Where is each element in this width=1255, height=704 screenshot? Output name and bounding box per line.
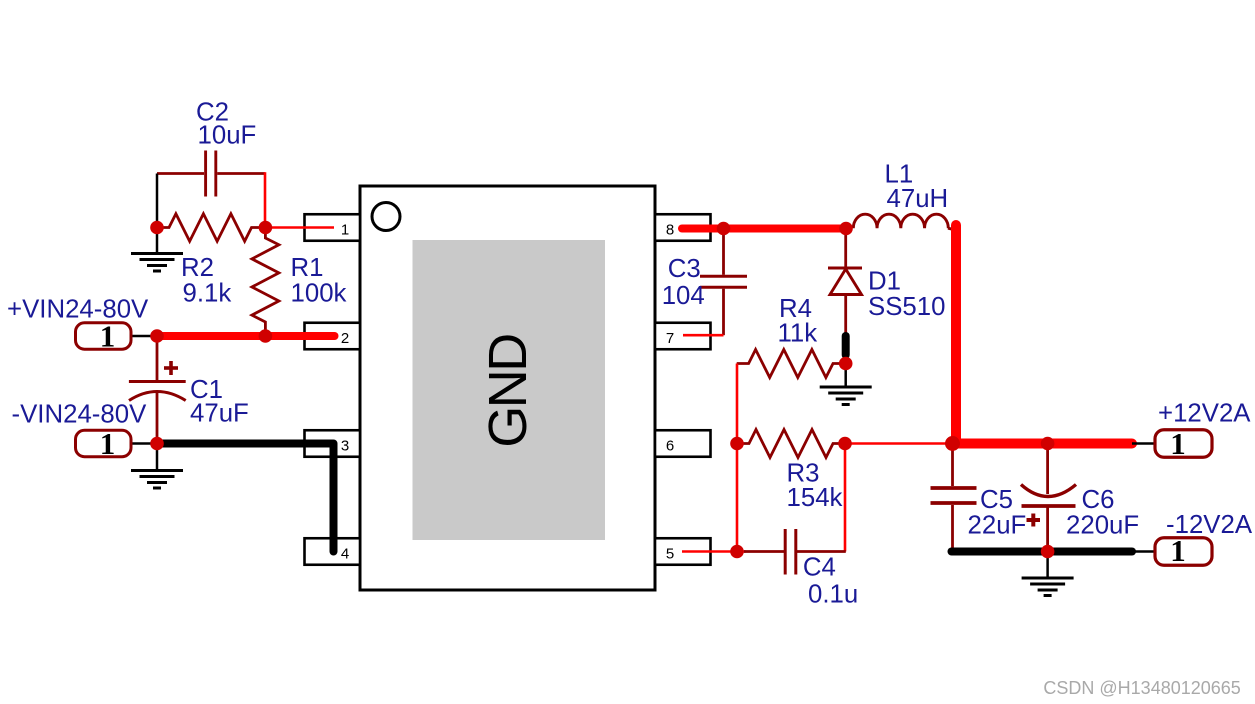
node L1/D1 xyxy=(839,222,853,236)
port -12V2A xyxy=(1155,533,1212,568)
svg-text:0.1u: 0.1u xyxy=(808,581,858,609)
pin 3 box xyxy=(305,430,361,457)
wire thick black output xyxy=(952,548,1133,556)
wire L1 to output rail xyxy=(948,228,954,229)
pin 7 box xyxy=(655,323,711,350)
svg-text:1: 1 xyxy=(100,426,116,461)
port stub +12V xyxy=(1132,442,1156,445)
resistor R1 xyxy=(252,228,279,337)
wire black left vertical to C2 xyxy=(156,174,159,228)
svg-text:-12V2A: -12V2A xyxy=(1166,511,1253,539)
port stub +VIN xyxy=(131,335,152,338)
black wire segment below D1 xyxy=(842,336,850,355)
wire C2 top horizontal right segment xyxy=(217,172,265,175)
capacitor C6 bottom lead xyxy=(1046,507,1049,552)
svg-text:3: 3 xyxy=(341,438,349,455)
svg-text:C3: C3 xyxy=(668,255,701,283)
svg-text:9.1k: 9.1k xyxy=(183,280,232,308)
capacitor C3 bottom lead to pin7 xyxy=(722,289,725,336)
wire pin5 stub xyxy=(682,550,737,553)
diode D1 cathode bar xyxy=(828,267,862,270)
IC inner gray region xyxy=(413,240,606,540)
svg-text:GND: GND xyxy=(478,335,538,448)
pin 1 box xyxy=(305,214,361,241)
capacitor C2 plates xyxy=(206,151,216,197)
capacitor C1 plus sign xyxy=(164,361,178,375)
wire pin7 stub xyxy=(683,334,724,337)
node D1 ground xyxy=(839,357,853,371)
svg-text:C6: C6 xyxy=(1082,486,1115,514)
capacitor C5 bottom lead xyxy=(951,505,954,549)
wire thick red pin2 xyxy=(157,332,335,340)
node pin8/C3 xyxy=(717,222,731,236)
wire red vertical R4 to pin5 row xyxy=(736,364,739,552)
capacitor C3 top lead xyxy=(722,229,725,275)
capacitor C4 plates xyxy=(785,529,796,575)
wire thick red pin8 xyxy=(682,225,846,233)
svg-text:2: 2 xyxy=(341,330,349,347)
node +VIN xyxy=(150,329,164,343)
node R3 left xyxy=(730,437,744,451)
capacitor C1 top lead xyxy=(156,336,159,380)
wire red right vertical from C2 to R1 node xyxy=(264,172,267,227)
wire C4 to R3 vertical xyxy=(797,550,846,553)
svg-text:100k: 100k xyxy=(291,280,347,308)
inductor L1 xyxy=(853,214,948,228)
pin 4 box xyxy=(305,538,361,565)
svg-text:8: 8 xyxy=(666,222,674,239)
capacitor C6 plus sign xyxy=(1027,514,1041,527)
svg-text:154k: 154k xyxy=(787,484,843,512)
svg-text:6: 6 xyxy=(666,438,674,455)
pin 8 box xyxy=(655,214,711,241)
wire pin5 node to C4 xyxy=(737,550,746,553)
wire thick red output vertical xyxy=(951,225,961,444)
svg-text:1: 1 xyxy=(1170,426,1186,461)
node R1 bottom xyxy=(259,329,273,343)
diode D1 triangle xyxy=(830,269,862,295)
svg-text:10uF: 10uF xyxy=(198,122,257,150)
capacitor C6 top lead xyxy=(1046,444,1049,495)
svg-text:47uF: 47uF xyxy=(190,400,249,428)
pin 2 box xyxy=(305,323,361,350)
node output rail C5 xyxy=(945,436,960,451)
svg-text:R1: R1 xyxy=(291,254,324,282)
svg-text:22uF: 22uF xyxy=(968,512,1027,540)
svg-text:11k: 11k xyxy=(778,320,818,348)
svg-text:R2: R2 xyxy=(181,254,214,282)
node R2/R1/pin1 junction xyxy=(259,221,273,235)
port +VIN24-80V xyxy=(76,319,132,354)
resistor R4 xyxy=(737,350,846,378)
capacitor C1 straight plate xyxy=(129,380,186,383)
capacitor C3 plates xyxy=(700,276,747,287)
port +12V2A xyxy=(1155,426,1212,461)
wire pin1 stub xyxy=(265,226,334,229)
svg-text:D1: D1 xyxy=(868,268,901,296)
port -VIN24-80V xyxy=(76,426,132,461)
ground under C1 node xyxy=(131,444,183,489)
port stub -12V xyxy=(1132,550,1156,553)
capacitor C5 top lead xyxy=(951,444,954,487)
wire thick red output horizontal xyxy=(953,439,1133,449)
capacitor C5 plates xyxy=(931,488,977,503)
svg-text:+VIN24-80V: +VIN24-80V xyxy=(7,296,149,324)
capacitor C4 left lead xyxy=(744,550,784,553)
svg-text:47uH: 47uH xyxy=(887,185,949,213)
ground under C6 node xyxy=(1022,552,1074,596)
svg-text:C4: C4 xyxy=(803,554,836,582)
svg-text:7: 7 xyxy=(666,330,674,347)
node pin5/C4 xyxy=(730,545,744,559)
IC body U1 xyxy=(360,186,655,590)
ground under R2 left node xyxy=(131,228,183,272)
wire thick black pin3 to pin4 xyxy=(157,444,334,552)
wire red vertical R3 to C4 xyxy=(844,444,847,552)
svg-text:5: 5 xyxy=(666,546,674,563)
node -VIN/C1 xyxy=(150,437,164,451)
pin 5 box xyxy=(655,538,711,565)
node C6 bottom xyxy=(1041,545,1055,559)
ground under D1 node xyxy=(820,364,872,405)
svg-text:SS510: SS510 xyxy=(868,293,945,321)
pin 6 box xyxy=(655,430,711,457)
svg-text:+12V2A: +12V2A xyxy=(1158,400,1251,428)
wire C2 top horizontal left segment xyxy=(157,172,204,175)
svg-text:1: 1 xyxy=(100,319,116,354)
diode D1 bottom lead xyxy=(844,295,847,335)
capacitor C1 curved plate xyxy=(129,392,186,401)
node output rail C6 xyxy=(1041,437,1055,451)
svg-text:220uF: 220uF xyxy=(1066,512,1139,540)
node R3 right xyxy=(838,437,852,451)
resistor R3 xyxy=(737,430,845,458)
capacitor C6 straight plate xyxy=(1022,504,1076,508)
wire red R3 to output node xyxy=(845,442,951,445)
svg-text:CSDN @H13480120665: CSDN @H13480120665 xyxy=(1043,678,1240,698)
diode D1 top lead xyxy=(844,229,847,270)
IC pin-1 indicator circle xyxy=(372,203,400,231)
svg-text:-VIN24-80V: -VIN24-80V xyxy=(12,401,148,429)
svg-text:4: 4 xyxy=(341,546,349,563)
svg-text:104: 104 xyxy=(662,282,705,310)
svg-text:C5: C5 xyxy=(980,486,1013,514)
capacitor C6 curved plate xyxy=(1021,485,1076,497)
node R2 left xyxy=(150,221,164,235)
svg-text:1: 1 xyxy=(341,222,349,239)
port stub -VIN xyxy=(131,442,152,445)
resistor R2 xyxy=(157,214,265,241)
capacitor C1 bottom lead xyxy=(156,392,159,444)
